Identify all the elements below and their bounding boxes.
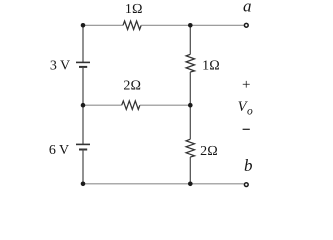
wire: right rail top segment xyxy=(189,25,191,54)
node b terminal (open circle) xyxy=(244,183,248,187)
wire: middle branch left segment xyxy=(83,104,122,106)
junction: top-left node xyxy=(81,23,86,28)
wire: left rail upper segment (top node to 3V battery) xyxy=(82,25,84,62)
battery 6 V (long plate) xyxy=(76,143,90,145)
svg-text:1Ω: 1Ω xyxy=(125,2,143,17)
svg-text:2Ω: 2Ω xyxy=(123,79,141,94)
wire: bottom rail (node to terminal b) xyxy=(83,183,244,185)
resistor 1Ω (top horizontal) xyxy=(123,21,141,30)
junction: bottom-left node xyxy=(81,182,86,187)
battery 6 V (short plate) xyxy=(79,149,87,151)
wire: right rail bottom segment xyxy=(189,157,191,184)
node a terminal (open circle) xyxy=(244,23,248,27)
resistor 2Ω (middle horizontal) xyxy=(122,101,140,110)
svg-text:6 V: 6 V xyxy=(49,143,69,158)
resistor 2Ω (right vertical) xyxy=(186,139,194,157)
svg-text:a: a xyxy=(243,0,252,15)
junction: top-right node xyxy=(188,23,193,28)
label − (output polarity) xyxy=(243,128,250,130)
svg-text:2Ω: 2Ω xyxy=(200,144,218,159)
wire: top rail left segment (node to R 1ohm) xyxy=(83,24,123,26)
svg-text:3 V: 3 V xyxy=(50,59,70,74)
wire: left rail lower segment (6V battery to bottom node) xyxy=(82,150,84,184)
wire: top rail right segment (R 1ohm to terminal a) xyxy=(141,24,244,26)
svg-text:b: b xyxy=(244,156,253,175)
resistor 1Ω (right vertical) xyxy=(186,54,194,72)
junction: bottom-right node xyxy=(188,182,193,187)
wire: left rail middle segment (3V battery to 6V battery) xyxy=(82,67,84,144)
svg-text:1Ω: 1Ω xyxy=(202,59,220,74)
svg-text:Vo: Vo xyxy=(238,99,253,118)
junction: middle-right node xyxy=(188,103,193,108)
svg-text:+: + xyxy=(242,77,250,93)
wire: right rail middle segment xyxy=(189,72,191,139)
battery 3 V (short plate) xyxy=(79,66,87,68)
battery 3 V (long plate) xyxy=(76,61,90,63)
wire: middle branch right segment xyxy=(140,104,190,106)
junction: middle-left node xyxy=(81,103,86,108)
